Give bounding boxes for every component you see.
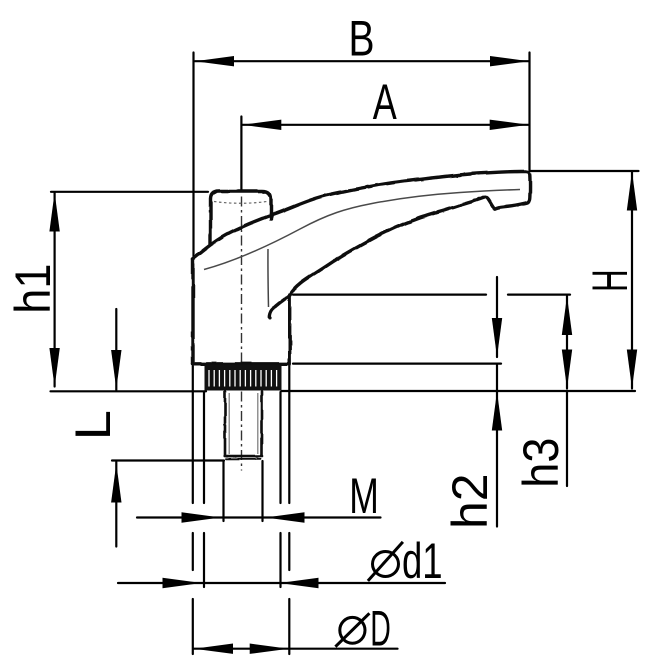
extension line D left lower (192, 599, 194, 654)
arrowhead M right (left-pointing) (266, 512, 305, 522)
extension line d1 left lower (203, 533, 205, 587)
svg-text:h3: h3 (514, 438, 570, 488)
extension line grip underside level segment 1 (293, 294, 486, 296)
extension line left of A (centerline extended) (240, 117, 242, 191)
arrowhead M left (right-pointing) (182, 512, 221, 522)
svg-text:H: H (582, 269, 638, 292)
centerline through part (241, 197, 243, 471)
extension line D right upper (288, 366, 290, 503)
arrowhead d1 left (right-pointing) (163, 578, 202, 588)
dimension A line (242, 124, 528, 126)
hub-grip fillet hook (269, 295, 290, 319)
extension line D right middle (288, 533, 290, 570)
svg-text:B: B (348, 10, 374, 67)
dimension L line upper part (115, 309, 117, 390)
arrowhead d1 right (left-pointing) (280, 578, 319, 588)
arrowhead A right (490, 120, 529, 130)
dimension h3 line (566, 296, 568, 389)
arrowhead D right (right-pointing) (250, 644, 289, 654)
arrowhead h3 bottom (562, 350, 572, 389)
arrowhead D left (left-pointing) (194, 644, 233, 654)
svg-text:h2: h2 (442, 473, 498, 529)
extension line D left upper (192, 366, 194, 503)
hub right edge (288, 295, 291, 364)
boss on top of hub (211, 191, 272, 244)
svg-text:h1: h1 (6, 264, 62, 314)
stud thread shading left (228, 393, 230, 454)
dimension d1 line (118, 582, 445, 584)
diameter symbol of d1 (368, 542, 403, 581)
svg-text:d1: d1 (402, 533, 443, 589)
extension line grip underside level segment 2 (508, 294, 570, 296)
svg-text:L: L (66, 410, 121, 440)
extension line d1 left upper (203, 392, 205, 503)
extension line mounting face left (51, 390, 207, 392)
dimension L line lower part (115, 462, 117, 547)
threaded stud right edge (260, 392, 263, 457)
arrowhead h1 top (49, 193, 59, 232)
dimension h3 line lower shaft (566, 391, 568, 486)
arrowhead h3 top (562, 296, 572, 335)
dimension h2 line lower shaft (496, 392, 498, 527)
threaded stud bottom edge (225, 455, 262, 458)
knurled ring (205, 365, 282, 391)
dimension M line (137, 516, 381, 518)
arrowhead H top (627, 172, 637, 211)
arrowhead h2 upper (down) (492, 318, 502, 357)
svg-text:D: D (370, 600, 391, 657)
extension line right of B/A (lever tip) (528, 53, 530, 172)
arrowhead B left (195, 56, 234, 66)
dimension D line (194, 648, 398, 650)
boss top face dashed line (214, 202, 267, 204)
threaded stud bottom second line (226, 458, 261, 460)
arrowhead L upper (down) (111, 350, 121, 389)
arrowhead A left (242, 120, 281, 130)
extension line stud bottom left (112, 459, 224, 461)
arrowhead h1 bottom (49, 348, 59, 387)
arrowhead B right (490, 56, 529, 66)
threaded stud left edge (224, 392, 227, 457)
hub left edge (191, 259, 194, 364)
extension line hub bottom right (293, 363, 501, 365)
extension line D left middle (192, 533, 194, 570)
svg-text:A: A (373, 75, 397, 130)
dimension B line (195, 60, 529, 62)
extension line M right (stud right) (261, 461, 263, 521)
extension line d1 right lower (279, 533, 281, 587)
dimension h2 line between faces (496, 364, 498, 390)
dimension h2 line upper shaft (496, 277, 498, 357)
diameter symbol of D (335, 613, 369, 646)
extension line d1 right upper (279, 392, 281, 503)
grip reflection line (204, 190, 520, 270)
extension line M left (stud left) (222, 461, 224, 521)
extension line mounting face long right (282, 390, 636, 392)
hub blend thin line (267, 249, 270, 307)
extension line top of h1 (boss top) (51, 191, 208, 193)
extension line left of B (body left edge extended) (192, 53, 194, 259)
arrowhead L lower (up) (111, 464, 121, 503)
dimension h1 line (53, 193, 55, 387)
extension line D right lower (288, 599, 290, 654)
svg-text:M: M (349, 469, 379, 524)
extension line lever top right (530, 170, 639, 172)
arrowhead h2 lower (up) (492, 392, 502, 431)
stud thread shading right (257, 393, 259, 454)
dimension H line (631, 172, 633, 389)
hub bottom edge (193, 362, 290, 365)
lever grip top edge (193, 172, 530, 295)
arrowhead H bottom (627, 350, 637, 389)
